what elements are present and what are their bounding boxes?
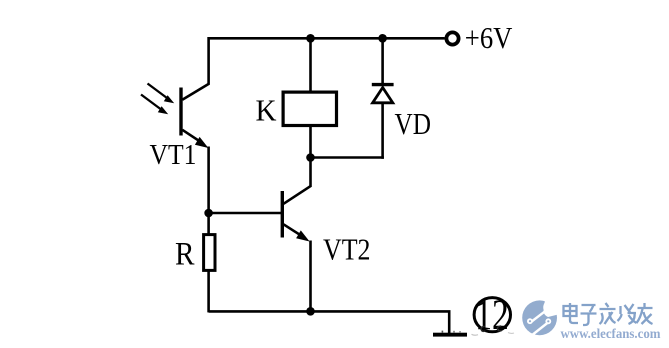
char dian bbox=[564, 303, 579, 323]
wire VT2 collector vertical bbox=[309, 158, 312, 188]
wire VT2 emitter diagonal bbox=[284, 224, 302, 236]
node top rail VD branch bbox=[378, 34, 387, 43]
node base junction bbox=[204, 209, 213, 218]
wire K branch upper bbox=[309, 38, 312, 91]
VT1 emitter arrowhead bbox=[195, 137, 209, 148]
elecfans logo circle bbox=[522, 291, 560, 338]
svg-text:VT2: VT2 bbox=[323, 232, 371, 267]
wire top rail bbox=[209, 37, 445, 40]
char you bbox=[637, 303, 653, 324]
node bottom rail emitter junction bbox=[306, 307, 315, 316]
svg-text:R: R bbox=[175, 237, 195, 273]
wire left vertical emitter to resistor bbox=[207, 147, 210, 235]
node top rail K branch bbox=[306, 34, 315, 43]
svg-text:12: 12 bbox=[475, 292, 509, 339]
wire VT2 collector diagonal bbox=[284, 186, 311, 204]
terminal +6V bbox=[446, 32, 458, 44]
wire VD branch upper bbox=[381, 38, 384, 84]
watermark chinese text dianzifashaoyou bbox=[564, 303, 653, 325]
svg-text:K: K bbox=[256, 93, 278, 128]
wire VT2 base bbox=[209, 212, 282, 215]
wire bottom rail bbox=[209, 310, 451, 313]
wire resistor to bottom rail bbox=[207, 272, 210, 313]
transistor VT2 base bar bbox=[281, 191, 284, 238]
node collector junction bbox=[306, 153, 315, 162]
resistor R bbox=[204, 235, 215, 271]
char fa bbox=[600, 303, 616, 324]
diode VD cathode bar bbox=[372, 83, 394, 86]
wire VT1 emitter diagonal bbox=[182, 130, 200, 142]
figure number circle 12 bbox=[474, 292, 510, 339]
wire VT1 collector diagonal bbox=[182, 84, 209, 100]
wire K branch lower bbox=[309, 126, 312, 158]
wire to ground bbox=[448, 311, 451, 333]
wire VD branch lower bbox=[381, 103, 384, 159]
svg-text:VD: VD bbox=[395, 106, 432, 141]
transistor VT1 base bar bbox=[179, 88, 182, 136]
ground bbox=[433, 331, 467, 337]
light arrow 1 into VT1 bbox=[148, 84, 175, 104]
svg-text:www.elecfans.com: www.elecfans.com bbox=[561, 326, 662, 341]
wire VT1 collector vertical bbox=[207, 37, 210, 85]
diode VD triangle bbox=[373, 88, 393, 103]
wire VT2 emitter vertical bbox=[309, 241, 312, 313]
VT2 emitter arrowhead bbox=[296, 230, 310, 241]
svg-text:VT1: VT1 bbox=[150, 139, 197, 171]
char shao bbox=[618, 304, 637, 324]
char zi bbox=[581, 305, 597, 325]
svg-text:+6V: +6V bbox=[465, 20, 513, 55]
relay coil K bbox=[283, 92, 336, 125]
faint watermark remnants under figure number bbox=[472, 326, 515, 335]
wire junction to diode bottom bbox=[311, 156, 384, 159]
light arrow 2 into VT1 bbox=[141, 95, 168, 115]
